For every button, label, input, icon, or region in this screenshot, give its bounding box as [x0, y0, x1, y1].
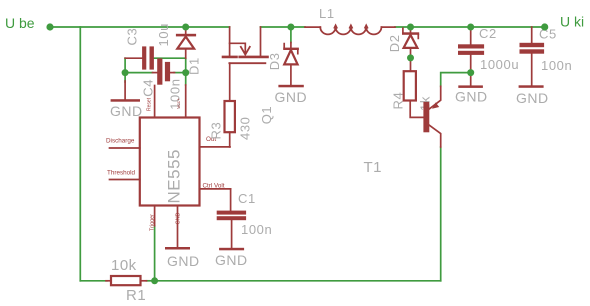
junction trigger R1 node: [151, 277, 158, 284]
capacitor C4: [153, 58, 175, 84]
inductor L1: [305, 25, 395, 34]
svg-text:Trigger: Trigger: [149, 214, 155, 231]
pin Trigger: [149, 206, 155, 232]
ground below C1: [215, 248, 248, 268]
junction C2 emitter node: [467, 69, 474, 76]
svg-text:GND: GND: [455, 88, 488, 104]
svg-text:R1: R1: [126, 287, 146, 304]
svg-text:1000u: 1000u: [480, 57, 519, 72]
transistor T1 pnp: [423, 86, 440, 147]
wire left rail: [79, 27, 81, 281]
capacitor C1: [217, 189, 246, 248]
pin Threshold: [107, 170, 140, 180]
svg-text:GND: GND: [110, 103, 143, 119]
junction C2 top: [467, 24, 474, 31]
wire C4 right to node: [174, 72, 186, 74]
pin Reset: [146, 86, 154, 118]
svg-text:L1: L1: [319, 6, 335, 21]
capacitor C2: [458, 29, 484, 73]
wire node to GND stub: [124, 73, 126, 82]
wire L1 to U ki: [395, 26, 545, 28]
resistor R4: [404, 60, 424, 117]
node U be pin: [46, 23, 53, 30]
capacitor C3: [125, 46, 154, 69]
svg-text:Reset: Reset: [146, 97, 152, 111]
svg-text:NE555: NE555: [165, 149, 184, 203]
ground below U1: [165, 247, 200, 269]
svg-text:U ki: U ki: [560, 14, 584, 30]
ground below C3 C4: [110, 81, 143, 119]
svg-text:430: 430: [237, 117, 252, 141]
svg-text:GND: GND: [167, 253, 200, 269]
wire Q1 drain to L1: [261, 26, 306, 28]
junction Q1 drain node: [287, 24, 294, 31]
junction D1 top: [182, 24, 189, 31]
svg-text:GND: GND: [516, 90, 549, 106]
svg-text:GND: GND: [275, 89, 308, 105]
capacitor C5: [520, 27, 545, 85]
op-amp U1 NE555 box: [140, 118, 200, 206]
svg-text:100n: 100n: [541, 58, 572, 73]
junction D2 R4 node: [407, 54, 414, 61]
svg-text:C1: C1: [238, 191, 256, 206]
transistor Q1 p-mosfet: [223, 27, 268, 63]
wire T1 collector riser: [440, 147, 442, 281]
wire R1 to trigger junction: [147, 280, 155, 282]
ground below C5: [516, 85, 549, 106]
svg-text:10k: 10k: [111, 257, 137, 274]
svg-text:T1: T1: [364, 159, 383, 176]
wire trigger drop: [154, 226, 156, 281]
svg-text:R4: R4: [391, 92, 406, 110]
diode D2 zener: [402, 27, 419, 55]
wire bottom rail to R1: [80, 280, 107, 282]
pin GND of U1: [176, 206, 182, 248]
svg-text:GND: GND: [215, 252, 248, 268]
svg-text:Q1: Q1: [259, 106, 274, 125]
pin Vcc+: [176, 85, 186, 118]
node U ki pin: [541, 23, 548, 30]
wire top rail from U be to Q1 source: [50, 26, 230, 28]
ground below D3: [275, 85, 308, 105]
svg-text:D2: D2: [387, 34, 402, 52]
svg-text:D3: D3: [267, 52, 282, 70]
wire node to C4 left: [125, 72, 152, 74]
junction C4 right node: [182, 69, 189, 76]
pin Ctrl Volt: [200, 183, 231, 190]
svg-text:Threshold: Threshold: [107, 170, 135, 177]
svg-text:Vcc+: Vcc+: [176, 98, 182, 109]
svg-text:U be: U be: [5, 15, 35, 31]
resistor R1: [106, 276, 147, 285]
junction D2 top: [407, 24, 414, 31]
diode D1: [176, 27, 196, 58]
svg-text:R3: R3: [209, 122, 224, 140]
svg-text:C4: C4: [140, 79, 155, 97]
junction C3 C4 left node: [122, 69, 129, 76]
svg-text:Ctrl Volt: Ctrl Volt: [203, 183, 225, 190]
svg-text:Discharge: Discharge: [106, 138, 135, 145]
svg-text:10u: 10u: [156, 23, 171, 47]
resistor R3: [225, 63, 235, 147]
pin Discharge: [106, 138, 140, 148]
svg-text:100n: 100n: [241, 222, 272, 237]
wire D1 anode node vertical: [185, 58, 187, 85]
wire C3 left to node: [124, 58, 126, 72]
svg-text:C3: C3: [125, 28, 140, 46]
wire D3 top: [290, 27, 292, 43]
svg-text:C2: C2: [479, 26, 497, 41]
svg-text:GND: GND: [176, 212, 182, 224]
wire bottom rail right: [155, 280, 441, 282]
pin Out: [200, 136, 231, 147]
ground below C2: [455, 73, 488, 105]
diode D3 zener: [283, 43, 299, 85]
wire T1 emitter link: [441, 73, 471, 87]
wire C3 right to D1 line: [154, 57, 186, 59]
